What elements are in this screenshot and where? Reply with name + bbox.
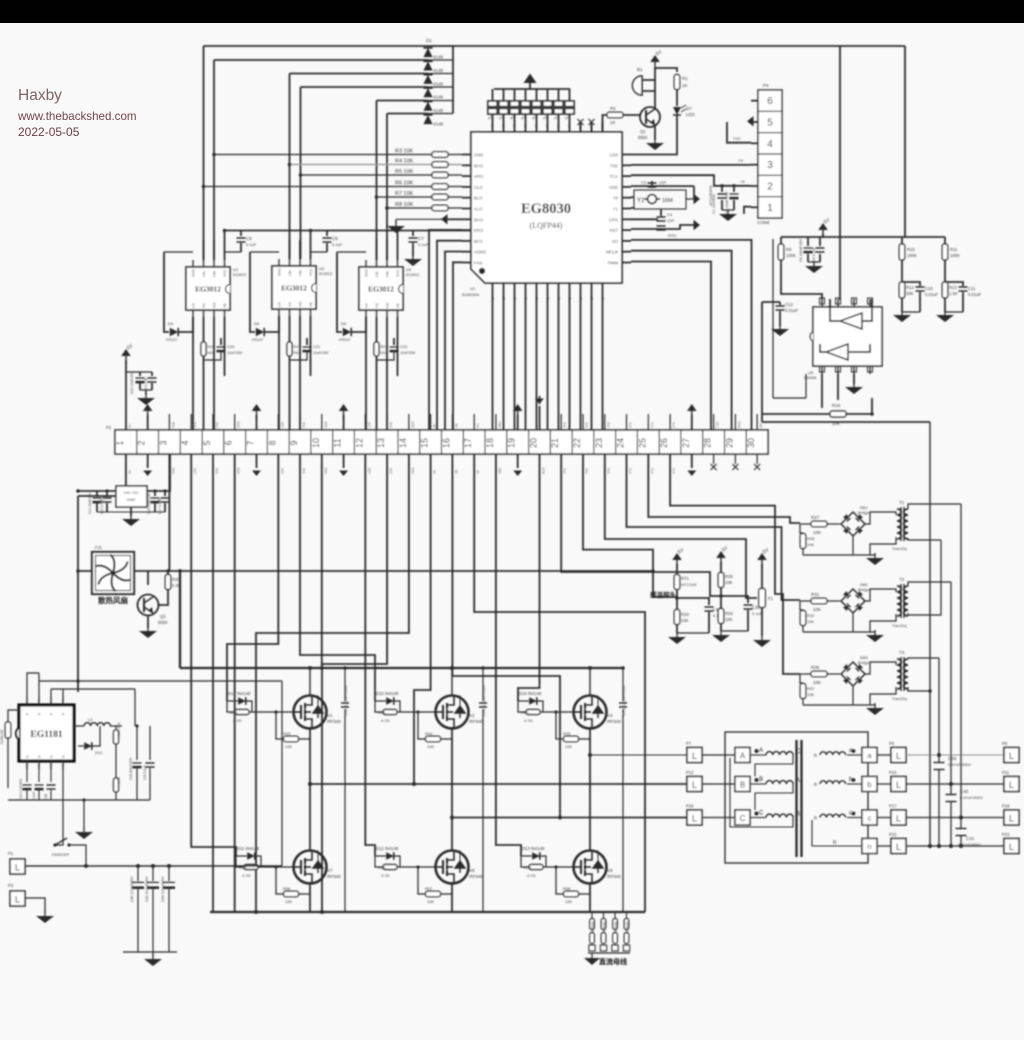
svg-text:S: S (578, 297, 583, 300)
arrow down below pin 11 (343, 454, 345, 468)
svg-text:(LQFP44): (LQFP44) (530, 221, 563, 230)
pin LO (365, 310, 367, 317)
svg-text:D11 IN4148: D11 IN4148 (237, 846, 260, 851)
capacitor C43 1000uF (152, 866, 154, 881)
svg-text:LO: LO (365, 303, 369, 308)
pin bottom wire to header (503, 283, 505, 430)
svg-text:RXD: RXD (737, 421, 741, 428)
svg-text:510K/1W: 510K/1W (0, 729, 4, 744)
svg-text:GND: GND (192, 269, 196, 277)
svg-text:散热风扇: 散热风扇 (98, 595, 128, 605)
wire bridge to transformer (865, 512, 896, 524)
svg-text:C42 1000uF/35V: C42 1000uF/35V (130, 876, 134, 902)
resistor R38 4.7R (235, 710, 249, 715)
svg-text:FAN: FAN (171, 467, 175, 474)
resistor R43 10K (276, 712, 283, 739)
pin VS (203, 310, 205, 317)
svg-text:R31: R31 (811, 592, 820, 597)
svg-text:S: S (534, 297, 539, 300)
wire to diode D6 (387, 113, 428, 115)
svg-text:C28: C28 (44, 794, 48, 800)
wire pin26 right bend T3 (670, 454, 800, 674)
wire pin14 down mid (256, 454, 409, 912)
svg-text:VB: VB (454, 470, 458, 474)
svg-text:10K: 10K (427, 744, 434, 749)
svg-text:C22: C22 (400, 344, 408, 349)
wire R5 row (301, 174, 433, 176)
svg-text:c: c (868, 814, 872, 823)
wire R2 bottom rail (802, 549, 804, 555)
wire pin4 down (62, 769, 64, 812)
pin VB (224, 310, 226, 317)
wire P12 to B (702, 783, 735, 785)
capacitor C17 (164, 491, 166, 496)
svg-text:P18: P18 (1002, 804, 1010, 809)
resistor RN7 (558, 89, 560, 101)
wire left rail join (76, 679, 80, 683)
capacitor C26 100uF (136, 726, 138, 760)
svg-text:TP1: TP1 (563, 422, 567, 428)
wire L line (25, 865, 282, 867)
pin 5 stub (751, 121, 758, 123)
wire opamp outer loop (772, 239, 774, 398)
svg-text:4.7Ω: 4.7Ω (233, 718, 242, 723)
switch SW1 (55, 812, 63, 845)
wire pin16 to phase C sense (452, 454, 560, 818)
svg-text:GND: GND (278, 268, 282, 276)
svg-text:R20: R20 (208, 344, 216, 349)
svg-text:10K: 10K (681, 618, 689, 623)
diode D4 FR107 (164, 252, 169, 332)
svg-text:S: S (556, 297, 561, 300)
svg-text:16M: 16M (662, 198, 673, 204)
wire crystal to Y0 pin (631, 196, 634, 198)
svg-text:F1: F1 (768, 596, 774, 601)
svg-text:10: 10 (311, 438, 321, 448)
svg-text:P23: P23 (1002, 832, 1010, 837)
svg-text:D7: D7 (686, 106, 692, 111)
output rail a (938, 658, 940, 762)
pin top stub (602, 121, 604, 132)
svg-text:ACCURATE: ACCURATE (709, 185, 713, 206)
svg-text:RT1: RT1 (681, 576, 690, 581)
wire top rail 2 (51, 688, 135, 690)
svg-text:R7 10K: R7 10K (395, 191, 414, 197)
svg-text:1: 1 (767, 203, 773, 214)
svg-text:10K: 10K (813, 607, 821, 612)
wire drain V3 (589, 668, 591, 695)
pin 8 top stub (821, 299, 823, 307)
svg-text:Bridge1: Bridge1 (858, 588, 871, 592)
svg-text:FJ1: FJ1 (95, 545, 103, 550)
wire R8 row (387, 207, 432, 209)
svg-text:Q3: Q3 (160, 614, 166, 619)
stub above pin 1 (125, 414, 127, 430)
wire caps ground bar (123, 951, 177, 953)
svg-text:C12: C12 (785, 302, 793, 307)
svg-text:0.1uF: 0.1uF (418, 242, 429, 247)
svg-text:C32 0.33uF/630V: C32 0.33uF/630V (481, 684, 486, 716)
stub above pin 10 (321, 414, 323, 430)
svg-text:IRF940: IRF940 (469, 874, 483, 879)
wires caps to ground (807, 254, 809, 262)
svg-text:VS2: VS2 (302, 468, 306, 474)
capacitor C1 104 (721, 186, 723, 192)
ground (654, 138, 656, 143)
capacitor bank above U1 (494, 88, 570, 90)
output rail mid (929, 422, 931, 846)
svg-text:VT1: VT1 (629, 468, 633, 474)
wire R13 to ground (944, 298, 946, 312)
svg-text:10K: 10K (807, 542, 814, 547)
crystal Y1 16M network (634, 190, 686, 209)
svg-text:R22: R22 (381, 344, 389, 349)
svg-text:R41 51K: R41 51K (117, 722, 121, 736)
svg-text:14: 14 (398, 438, 408, 448)
transistor Q3 8050 (138, 595, 159, 616)
svg-text:L: L (692, 814, 697, 824)
wire VB down (224, 317, 226, 376)
svg-text:8050: 8050 (158, 620, 168, 625)
svg-text:16: 16 (441, 438, 451, 448)
wire LIN feed (203, 240, 205, 260)
svg-text:VR 300K: VR 300K (603, 920, 607, 934)
svg-text:EG1181: EG1181 (30, 730, 62, 740)
svg-text:VS3: VS3 (389, 422, 393, 428)
svg-text:VDD: VDD (609, 185, 618, 190)
svg-text:EG3012: EG3012 (406, 273, 419, 277)
wire V7 source down (309, 882, 311, 912)
pin ALO left stub (462, 208, 471, 210)
svg-text:C23 10uF/25V: C23 10uF/25V (130, 371, 134, 394)
svg-text:BUS: BUS (541, 467, 545, 474)
svg-text:B1: B1 (637, 67, 643, 72)
wire emitter to ground (654, 125, 656, 140)
stub above pin 30 (756, 414, 758, 430)
svg-text:1: 1 (115, 440, 125, 445)
wire diode to VB (352, 317, 366, 332)
stub above pin 21 (560, 414, 562, 430)
svg-text:10K: 10K (725, 617, 733, 622)
svg-text:FAN: FAN (474, 261, 482, 266)
pin HO (386, 310, 388, 317)
capacitor C11 0.01uF (945, 282, 963, 286)
svg-text:0Ω: 0Ω (381, 350, 386, 355)
svg-text:C6: C6 (332, 236, 338, 241)
svg-text:TP2: TP2 (585, 468, 589, 474)
pin CLO left stub (462, 186, 471, 188)
wire pin4 to V7 gate feed (191, 454, 236, 856)
wire row P17 to P18 (906, 817, 1004, 819)
svg-text:P4: P4 (763, 83, 769, 88)
svg-text:C25 0.1uF: C25 0.1uF (143, 765, 147, 780)
svg-text:P7: P7 (686, 741, 692, 746)
svg-text:VS2: VS2 (302, 422, 306, 428)
svg-text:VT3: VT3 (672, 422, 676, 428)
stub above pin 15 (430, 414, 432, 430)
bridge rectifier DB2 (827, 600, 840, 602)
wire diode to VB (265, 316, 279, 332)
wire pin28 below nc (713, 454, 715, 464)
stub above pin 14 (408, 414, 410, 430)
pin bottom wire to header (580, 283, 582, 430)
resistor R7 10K (432, 194, 448, 200)
op-amp A triangle (840, 313, 862, 329)
svg-text:4: 4 (767, 139, 773, 150)
winding interconnects (755, 755, 793, 777)
fuse F1 (761, 564, 763, 589)
wire LO down (278, 316, 280, 430)
resistor R13 1.5K (942, 282, 948, 298)
svg-text:22P: 22P (667, 218, 674, 223)
resistor R10 100K (901, 237, 903, 244)
svg-text:1K: 1K (682, 83, 688, 88)
svg-text:L2: L2 (88, 717, 93, 722)
resistor R41 51K (115, 726, 117, 729)
arrow down below pin 19 (517, 454, 519, 468)
svg-text:R3 10K: R3 10K (395, 149, 414, 155)
svg-text:C5: C5 (246, 236, 252, 241)
svg-text:EG3012: EG3012 (368, 285, 394, 294)
svg-text:28: 28 (703, 438, 713, 448)
wire V2 source to phase C (451, 727, 453, 851)
diode D15 IN4148 (386, 697, 394, 705)
resistor R36 10K (811, 671, 827, 677)
diode D5 4148 (423, 102, 432, 111)
wire R11 node (944, 260, 946, 282)
svg-text:R36: R36 (811, 665, 820, 670)
driver IC U2 EG3012 body (186, 267, 230, 310)
wire top rail 1 (39, 680, 282, 682)
transformer T1 (897, 509, 901, 539)
svg-text:D10: D10 (95, 751, 102, 755)
wire pin20 to V3 gate feed (518, 454, 540, 701)
wire R10 node (901, 260, 903, 282)
svg-text:EG3012: EG3012 (281, 284, 307, 293)
svg-text:10K: 10K (813, 680, 821, 685)
wire pin3 TXE (631, 164, 751, 166)
svg-text:4148: 4148 (433, 95, 444, 100)
svg-text:R6 10K: R6 10K (395, 181, 414, 187)
svg-text:B: B (759, 777, 763, 783)
svg-text:25: 25 (637, 438, 647, 448)
resistor R12 30K (899, 282, 905, 298)
wire pin1 to left rail (78, 454, 126, 496)
stub above pin 22 (582, 414, 584, 430)
ground at SHO row (395, 219, 397, 223)
svg-text:0Ω: 0Ω (208, 350, 213, 355)
svg-text:2: 2 (767, 182, 773, 193)
svg-text:ERO: ERO (474, 228, 484, 233)
resistor RN8 (569, 89, 571, 101)
stub above pin 9 (299, 414, 301, 430)
svg-text:6: 6 (224, 440, 234, 445)
svg-text:VR 300K: VR 300K (614, 920, 618, 934)
svg-text:G: G (38, 755, 42, 758)
inductor L2 (84, 723, 110, 726)
svg-text:LO2: LO2 (280, 468, 284, 474)
wire T1 secondary top out (908, 504, 961, 509)
pin MCLR right stub (622, 251, 631, 253)
pin LED right stub (622, 154, 631, 156)
wire gate network (518, 700, 529, 702)
svg-text:D13 IN4148: D13 IN4148 (522, 846, 545, 851)
svg-text:11: 11 (333, 438, 343, 447)
capacitor C13 0.1uF (151, 372, 153, 376)
capacitor C10 0.01uF (902, 282, 920, 286)
wire pin29 below nc (734, 454, 736, 464)
svg-text:感温探头: 感温探头 (650, 590, 677, 599)
svg-text:10K: 10K (813, 530, 821, 535)
resistor R63 divider (590, 919, 595, 930)
diode D12 IN4148 (386, 852, 394, 860)
svg-text:V: V (534, 124, 539, 127)
pin BHO left stub (462, 218, 471, 220)
svg-text:IRF940: IRF940 (469, 719, 483, 724)
svg-text:VS1: VS1 (215, 422, 219, 428)
capacitor C16 (154, 491, 156, 496)
power IC U7 EG1181 body (19, 705, 74, 761)
capacitor C5 0.1uF (240, 231, 242, 237)
svg-text:VB: VB (396, 303, 400, 308)
wire R7 row (377, 196, 433, 198)
svg-text:DB2: DB2 (860, 582, 869, 587)
svg-text:V: V (567, 124, 572, 127)
wire PWM row to pin28 (631, 262, 711, 431)
svg-text:0.01uF: 0.01uF (925, 292, 938, 297)
arrow left at SHO pin (441, 214, 448, 224)
pin 4 bottom stub (869, 366, 871, 374)
svg-text:HIN: HIN (213, 270, 217, 277)
transistor V1 IRF940 mosfet (294, 696, 327, 729)
pin GND (192, 260, 194, 267)
wire R29 node (720, 588, 722, 609)
svg-text:Tran1Dq: Tran1Dq (892, 697, 907, 701)
svg-text:IRF940: IRF940 (607, 874, 621, 879)
pin BLO left stub (462, 197, 471, 199)
arrow down below pin 27 (691, 454, 693, 468)
pin top stub (503, 121, 505, 132)
svg-text:4148: 4148 (433, 108, 444, 113)
junction dots output (937, 753, 941, 757)
svg-text:3: 3 (158, 440, 168, 445)
capacitor C6 0.1uF (326, 231, 328, 237)
svg-text:HIN: HIN (299, 269, 303, 276)
svg-text:DB1: DB1 (860, 505, 869, 510)
wire pin1 stub (744, 207, 751, 214)
wire VB down (397, 317, 399, 376)
svg-text:VS1: VS1 (215, 468, 219, 474)
svg-text:10K: 10K (285, 899, 292, 904)
svg-text:R28: R28 (807, 536, 815, 541)
svg-text:R33: R33 (681, 612, 689, 617)
terminal A box (735, 748, 750, 763)
wire sampling feed (614, 912, 616, 918)
op-amp B triangle (826, 344, 848, 360)
diode D10 (84, 742, 92, 750)
svg-text:T3: T3 (899, 650, 905, 655)
svg-text:VS: VS (202, 303, 206, 308)
svg-text:R58: R58 (563, 886, 571, 891)
resistor R16 10K (830, 411, 846, 417)
driver IC U4 EG3012 body (359, 267, 403, 310)
svg-text:Tran1Dq: Tran1Dq (892, 547, 907, 551)
svg-text:0Ω: 0Ω (294, 350, 299, 355)
svg-text:VT1: VT1 (629, 422, 633, 428)
svg-text:IRF940: IRF940 (607, 719, 621, 724)
svg-text:100K: 100K (907, 253, 917, 258)
svg-text:FR107: FR107 (166, 338, 177, 342)
svg-text:HO2: HO2 (324, 467, 328, 474)
wire a to P5 (877, 754, 891, 756)
wire pin21 to R29 node (561, 454, 721, 596)
svg-text:HO1: HO1 (237, 467, 241, 474)
resistor R66 divider (624, 919, 629, 930)
transistor V7 IRF940 mosfet (294, 851, 327, 884)
wire pin25 right bend T1 (648, 454, 800, 523)
pin bottom wire to header (569, 283, 571, 430)
wire gate network (521, 855, 532, 857)
pin top stub (547, 121, 549, 132)
svg-text:R34: R34 (725, 611, 733, 616)
resistor R56 10K (276, 867, 283, 894)
capacitor C28 (50, 769, 52, 782)
wire V8 source down (451, 882, 453, 912)
wire HO down (299, 316, 301, 430)
wire to diode D3 (290, 73, 429, 75)
svg-text:23: 23 (594, 438, 604, 448)
pin 7 top stub (837, 299, 839, 307)
diode D4 4148 (423, 88, 432, 97)
wire right bus of diode column (452, 46, 454, 114)
pin top stub (536, 121, 538, 132)
arrow right clock out (686, 198, 694, 200)
capacitor C14 (96, 491, 98, 496)
svg-text:R4 10K: R4 10K (395, 159, 414, 165)
wire under op-amp (762, 421, 930, 423)
wire FAN elbow down (453, 262, 462, 430)
svg-text:直流母线: 直流母线 (599, 957, 627, 966)
wire SFO elbow down (437, 241, 462, 430)
svg-text:C: C (759, 811, 764, 817)
svg-text:V: V (545, 124, 550, 127)
svg-text:LIN: LIN (288, 270, 292, 276)
pin HO (299, 309, 301, 316)
wire R2 to U1 pin (603, 115, 608, 132)
svg-text:LO: LO (192, 303, 196, 308)
stub above pin 3 (168, 414, 170, 430)
wire switch to L line (69, 845, 86, 866)
resistor R44 10K (418, 712, 425, 739)
svg-text:26: 26 (659, 438, 669, 448)
resistor R1 1K (674, 75, 680, 90)
wire R16 right (846, 398, 872, 414)
pin 6 stub (751, 100, 758, 102)
svg-text:LO: LO (278, 302, 282, 307)
resistor R31 10K (811, 598, 827, 604)
svg-text:S: S (600, 297, 605, 300)
wire bridge to transformer (865, 589, 896, 601)
ground (591, 953, 593, 958)
svg-text:R10: R10 (907, 247, 915, 252)
wire R2 bottom rail (802, 699, 804, 705)
resistor RN4 (525, 89, 527, 101)
svg-text:D5: D5 (254, 321, 260, 326)
wire ERO elbow down (429, 230, 462, 430)
pin VS (289, 309, 291, 316)
wire VCC pin to rail (224, 231, 226, 261)
svg-text:VB: VB (454, 424, 458, 428)
